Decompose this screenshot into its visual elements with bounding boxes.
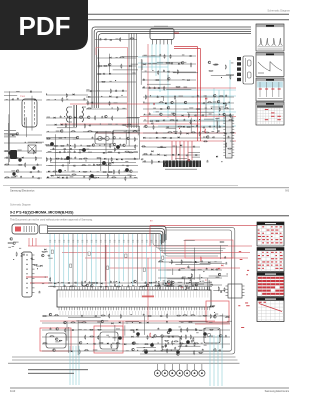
- capacitor C331: [196, 124, 198, 126]
- resistor R427: [42, 251, 47, 252]
- transistor Q345: [154, 335, 157, 338]
- wire: [46, 152, 138, 154]
- diode D303: [129, 65, 131, 67]
- wire: [188, 151, 200, 153]
- grid: [265, 301, 267, 322]
- junction: [221, 161, 222, 162]
- resistor R424: [170, 281, 171, 286]
- capacitor C366: [118, 152, 120, 154]
- wire: [68, 106, 72, 108]
- resistor R474: [187, 327, 188, 332]
- diode D308: [178, 63, 180, 65]
- capacitor C434: [225, 335, 227, 337]
- transistor Q356: [132, 342, 135, 345]
- capacitor C394: [215, 269, 217, 271]
- capacitor C415: [174, 347, 176, 349]
- wire: [175, 264, 210, 266]
- resistor R359: [25, 162, 26, 167]
- connector CN602: [40, 225, 48, 234]
- junction: [87, 343, 88, 344]
- wire: [4, 171, 42, 173]
- wire: [46, 171, 138, 173]
- resistor R469: [65, 328, 66, 333]
- wire: [167, 278, 194, 280]
- wire: [109, 54, 111, 73]
- diode D313: [151, 120, 153, 122]
- value label: [122, 107, 125, 110]
- capacitor C318: [154, 87, 156, 89]
- transistor Q337: [146, 284, 149, 287]
- resistor R495: [218, 286, 219, 291]
- waveform box W2: [256, 53, 284, 77]
- resistor R418: [181, 259, 182, 264]
- pin: [232, 143, 234, 145]
- wire: [143, 102, 234, 104]
- wire: [179, 321, 208, 323]
- value label: [126, 349, 129, 352]
- pin: [232, 117, 234, 119]
- red diagonal trace: [259, 304, 282, 312]
- value label: [216, 276, 220, 279]
- resistor R408: [141, 146, 146, 147]
- value label: [151, 54, 155, 57]
- IC202 rounded box: [162, 336, 180, 350]
- pin: [32, 268, 35, 270]
- resistor R477: [85, 335, 86, 340]
- pin: [242, 288, 245, 290]
- transistor Q357: [167, 331, 170, 334]
- value label: [192, 125, 194, 128]
- pin gap: [171, 161, 173, 168]
- value label: [88, 164, 91, 167]
- diode D321: [178, 137, 180, 139]
- value label: [184, 86, 188, 89]
- resistor R435: [143, 286, 148, 287]
- value label: [108, 123, 112, 126]
- diode D367: [212, 306, 214, 308]
- IC201 inner pin labels: [59, 291, 61, 297]
- value label: [195, 284, 197, 287]
- wire (B+): [140, 116, 236, 118]
- wire: [8, 123, 10, 165]
- wire: [142, 63, 196, 65]
- transistor Q311: [223, 113, 226, 116]
- capacitor C379: [63, 148, 65, 150]
- transistor Q320: [105, 115, 108, 118]
- wire (signal): [109, 234, 111, 286]
- wire: [213, 289, 225, 291]
- capacitor C446: [189, 279, 191, 281]
- junction: [104, 144, 105, 145]
- resistor R480: [181, 335, 182, 340]
- capacitor C390: [207, 160, 209, 162]
- wire: [68, 116, 70, 164]
- wire (signal): [63, 234, 65, 286]
- resistor R416: [158, 261, 163, 262]
- resistor R433: [116, 286, 121, 287]
- resistor R328: [219, 107, 220, 112]
- wire bus: [96, 31, 251, 108]
- junction: [219, 114, 220, 115]
- wire (signal): [218, 90, 220, 128]
- grid: [257, 281, 284, 283]
- nested corner wires: [153, 234, 228, 246]
- wire: [211, 75, 234, 77]
- wire bus: [48, 233, 162, 244]
- resistor R481: [185, 334, 186, 339]
- diode D305: [88, 96, 90, 98]
- capacitor C436: [151, 342, 153, 344]
- resistor R497: [219, 242, 224, 243]
- junction: [50, 145, 51, 146]
- IC203 square: [228, 284, 242, 298]
- resistor R366: [127, 124, 132, 125]
- wire red to connector: [191, 141, 193, 160]
- resistor R326: [207, 102, 212, 103]
- label under CN301: [165, 169, 197, 170]
- value label: [144, 54, 147, 57]
- resistor R403: [114, 147, 115, 152]
- wire: [176, 146, 178, 155]
- grid: [257, 306, 284, 308]
- pin: [155, 40, 157, 45]
- resistor R391: [81, 165, 86, 166]
- capacitor C319: [157, 87, 159, 89]
- resistor R382: [125, 151, 130, 152]
- wire (B+): [60, 123, 200, 125]
- pin gap: [167, 161, 169, 168]
- resistor R438: [164, 285, 169, 286]
- resistor R455: [54, 315, 59, 316]
- resistor R376: [60, 145, 65, 146]
- wire: [220, 245, 222, 259]
- value label: [209, 335, 213, 338]
- grid: [270, 225, 272, 246]
- diode D310: [165, 102, 167, 104]
- wire (signal): [146, 234, 148, 286]
- diode D357: [40, 265, 42, 267]
- resistor R422: [166, 286, 171, 287]
- resistor R304: [103, 65, 108, 66]
- value label: [153, 281, 157, 284]
- capacitor C406: [110, 280, 112, 282]
- junction: [85, 160, 86, 161]
- resistor R451: [147, 335, 148, 340]
- transistor Q353: [53, 349, 56, 352]
- wire (signal): [213, 88, 215, 130]
- value label: [195, 281, 199, 284]
- wire: [175, 100, 177, 133]
- wire: [142, 161, 200, 163]
- wire red vertical field: [105, 245, 107, 295]
- wire bus vertical: [128, 33, 130, 128]
- wire (signal): [113, 234, 115, 286]
- resistor R308: [110, 89, 111, 94]
- wire: [98, 62, 100, 69]
- pin gap: [195, 161, 197, 168]
- pin: [223, 120, 225, 122]
- wire (signal): [54, 234, 56, 286]
- junction: [119, 282, 120, 283]
- value label: [167, 269, 171, 272]
- transistor Q348: [101, 320, 104, 323]
- value label: [156, 110, 159, 113]
- value label: [204, 281, 208, 284]
- junction: [144, 114, 145, 115]
- diode D323: [12, 134, 14, 136]
- resistor R365: [122, 125, 127, 126]
- wire: [207, 278, 209, 292]
- wire: [42, 350, 230, 352]
- wire: [142, 79, 196, 81]
- wire: [68, 317, 101, 319]
- pin: [223, 134, 225, 136]
- diode D370: [111, 322, 113, 324]
- jack row P201: [154, 364, 160, 376]
- wire: [55, 174, 70, 176]
- junction: [112, 107, 113, 108]
- capacitor C388: [141, 158, 143, 160]
- pin gap: [178, 161, 180, 168]
- value label: [74, 285, 77, 288]
- junction: [70, 145, 71, 146]
- wire: [97, 65, 136, 67]
- resistor R392: [96, 164, 101, 165]
- svg-text:T101: T101: [20, 96, 26, 98]
- capacitor C430: [195, 328, 197, 330]
- transistor Q326: [113, 143, 116, 146]
- transistor Q307: [217, 100, 220, 103]
- capacitor C375: [66, 176, 68, 178]
- capacitor C314: [167, 71, 169, 73]
- red section box middle: [94, 326, 123, 353]
- capacitor C327: [201, 114, 203, 116]
- capacitor C330: [183, 119, 185, 121]
- pin: [32, 278, 35, 280]
- resistor R475: [209, 329, 214, 330]
- pin gap: [184, 161, 186, 168]
- wire: [113, 129, 140, 131]
- value label: [16, 90, 20, 93]
- resistor R452: [194, 350, 195, 355]
- wire (signal): [164, 234, 166, 286]
- pin: [32, 259, 35, 261]
- resistor R449: [193, 337, 194, 342]
- value label: [88, 151, 92, 154]
- value label: [47, 98, 50, 101]
- wire: [50, 175, 136, 177]
- resistor R405: [107, 173, 108, 178]
- resistor R415: [226, 142, 227, 147]
- resistor R309: [87, 100, 88, 105]
- resistor R310: [109, 101, 110, 106]
- wire red: [195, 323, 230, 325]
- wire red vertical: [147, 258, 149, 320]
- transistor Q335: [86, 284, 89, 287]
- capacitor C416: [209, 306, 211, 308]
- wire (signal): [72, 234, 74, 286]
- wire: [46, 94, 88, 96]
- pin: [32, 282, 35, 284]
- value label: [59, 137, 63, 140]
- pin: [232, 123, 234, 125]
- wire bus: [48, 231, 164, 243]
- wire: [105, 131, 107, 154]
- resistor R355: [33, 149, 34, 154]
- value label: [172, 71, 175, 74]
- grid: [270, 301, 272, 322]
- wire: [144, 346, 157, 348]
- resistor R320: [164, 86, 165, 91]
- transistor Q312: [145, 125, 148, 128]
- voltage table T2: [257, 248, 284, 272]
- grid: [274, 251, 276, 272]
- resistor R489: [79, 349, 80, 354]
- junction: [37, 268, 38, 269]
- capacitor C324: [160, 108, 162, 110]
- wire (red): [28, 245, 252, 247]
- capacitor C321: [197, 95, 199, 97]
- value label: [163, 132, 167, 135]
- value label: [61, 281, 64, 284]
- svg-text:PDF: PDF: [19, 11, 71, 41]
- resistor R372: [100, 138, 105, 139]
- page 1 schematic bottom frame: [3, 184, 238, 186]
- waveform box W1: [256, 24, 284, 51]
- diode D309: [187, 79, 189, 81]
- wire red to connector: [179, 141, 181, 160]
- resistor R441: [165, 343, 166, 348]
- value label: [181, 267, 185, 270]
- resistor R361: [95, 115, 96, 120]
- pin: [223, 155, 225, 157]
- diode D335: [121, 159, 123, 161]
- value label: [202, 280, 205, 283]
- wire: [68, 121, 72, 123]
- note text line 2: [28, 373, 74, 374]
- transistor Q319: [87, 116, 90, 119]
- transistor Q322: [76, 136, 79, 139]
- junction: [99, 145, 100, 146]
- diode D345: [164, 155, 166, 157]
- resistor R423: [191, 273, 192, 278]
- junction: [199, 119, 200, 120]
- wire cyan bottom-right bundle: [209, 335, 211, 386]
- IC IC201 MICOM body: [57, 290, 211, 307]
- wire: [171, 280, 173, 286]
- wire (signal): [104, 234, 106, 281]
- capacitor C320: [157, 95, 159, 97]
- capacitor C420: [195, 328, 197, 330]
- value label: [124, 170, 126, 173]
- junction: [119, 138, 120, 139]
- wire: [9, 91, 11, 162]
- value label: [172, 342, 175, 345]
- pin: [223, 137, 225, 139]
- wire: [200, 263, 225, 265]
- junction: [109, 336, 110, 337]
- waveform sawtooth: [258, 62, 270, 72]
- capacitor C417: [30, 258, 32, 260]
- value label: [72, 170, 75, 173]
- pin: [232, 152, 234, 154]
- grid: [261, 301, 263, 322]
- transformer T601 secondary coil: [82, 107, 84, 122]
- resistor R383: [128, 152, 133, 153]
- wire: [46, 158, 138, 160]
- capacitor C340: [217, 130, 219, 132]
- wire: [46, 136, 77, 138]
- resistor R316: [191, 62, 192, 67]
- resistor R426: [33, 264, 38, 265]
- junction: [131, 282, 132, 283]
- value label: [203, 327, 206, 330]
- junction: [55, 99, 56, 100]
- wire: [97, 49, 99, 67]
- wire: [190, 118, 192, 133]
- wire bus: [99, 34, 251, 108]
- wire: [157, 61, 187, 63]
- capacitor C313: [163, 69, 165, 71]
- resistor R330: [188, 113, 189, 118]
- capacitor C309: [91, 102, 93, 104]
- grid: [274, 276, 276, 297]
- capacitor C367: [61, 157, 63, 159]
- wire: [86, 108, 127, 110]
- wire: [4, 99, 42, 101]
- value label: [125, 160, 128, 163]
- junction: [46, 94, 47, 95]
- wire: [222, 314, 224, 349]
- pin gap: [174, 161, 176, 168]
- diode D375: [131, 336, 133, 338]
- wire: [54, 134, 56, 175]
- pin: [223, 132, 225, 134]
- diode D373: [147, 322, 149, 324]
- wire: [86, 90, 127, 92]
- junction: [158, 342, 159, 343]
- value label: [50, 285, 53, 288]
- capacitor C404: [89, 281, 91, 283]
- wire (signal): [132, 234, 134, 286]
- capacitor C435: [93, 343, 95, 345]
- diode D312: [182, 115, 184, 117]
- value label: [134, 176, 137, 179]
- value label: [203, 136, 206, 139]
- transistor Q351: [219, 334, 222, 337]
- wire: [8, 114, 10, 150]
- wire: [68, 327, 70, 353]
- frame line inner: [142, 230, 232, 351]
- capacitor C403: [84, 281, 86, 283]
- wire: [99, 323, 101, 329]
- wire (signal): [141, 234, 143, 281]
- cluster J red margin labels: [246, 304, 249, 307]
- capacitor C412: [127, 285, 129, 287]
- junction: [229, 102, 230, 103]
- value label: [133, 150, 137, 153]
- capacitor C441: [133, 330, 135, 332]
- wire: [143, 120, 234, 122]
- pin: [232, 126, 234, 128]
- wire (signal): [138, 56, 160, 58]
- resistor R367: [71, 131, 76, 132]
- wire bus: [92, 27, 251, 108]
- value label: [132, 342, 136, 345]
- IC201 red label: [142, 296, 154, 298]
- resistor R375: [53, 145, 58, 146]
- transistor Q325: [92, 144, 95, 147]
